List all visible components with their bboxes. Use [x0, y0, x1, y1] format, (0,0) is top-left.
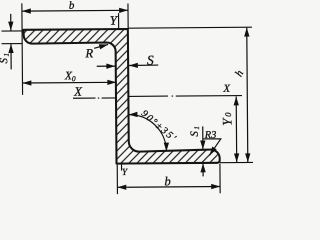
svg-text:S: S	[0, 58, 10, 64]
svg-text:R: R	[84, 46, 93, 60]
label S1 (bottom, rotated)	[189, 126, 201, 137]
svg-text:0: 0	[223, 112, 233, 117]
label R (top inner radius)	[84, 46, 93, 60]
label S1 (left, rotated)	[0, 53, 11, 64]
svg-text:90°±35′: 90°±35′	[139, 108, 179, 145]
dimension line Y0	[235, 96, 238, 162]
svg-text:1: 1	[3, 53, 11, 57]
label b (top)	[69, 0, 75, 12]
leader shelf R3	[203, 139, 221, 156]
label Y0 (rotated)	[219, 112, 234, 126]
dimension line X0	[22, 81, 116, 84]
dimension line b (bottom flange width)	[117, 185, 220, 188]
top extension line (profile top, to h)	[128, 26, 252, 29]
svg-text:1: 1	[193, 126, 201, 130]
svg-text:b: b	[69, 0, 75, 12]
svg-text:Y: Y	[122, 168, 129, 178]
svg-text:X0: X0	[64, 70, 76, 83]
arrow S left (points right at web left face)	[97, 65, 115, 67]
svg-text:Y: Y	[219, 117, 234, 126]
label 90deg +-35'	[139, 108, 179, 145]
label R3	[204, 130, 217, 141]
arrow S1 bottom-lower (points up at bottom edge)	[202, 163, 204, 176]
svg-text:S: S	[189, 131, 201, 137]
Y axis segment top	[118, 13, 120, 29]
extension line right of web top (for b top)	[127, 4, 129, 28]
arrow S right (points left at web right face)	[129, 64, 158, 66]
label X (left)	[73, 85, 83, 99]
svg-text:h: h	[233, 68, 246, 79]
extension line bottom right (for b bottom)	[219, 164, 221, 193]
extension line S1 top (left flange top face)	[1, 30, 22, 32]
label Y (top axis)	[110, 13, 119, 28]
bottom extension line (profile bottom, to h)	[220, 161, 253, 163]
svg-text:Y: Y	[110, 13, 119, 28]
svg-text:b: b	[164, 174, 170, 188]
Y axis segment bottom	[121, 164, 123, 170]
arrow S1 bottom-upper (points down at flange top face)	[202, 126, 204, 149]
svg-text:X: X	[222, 83, 231, 95]
X axis centre line (left part)	[73, 97, 116, 99]
label S	[147, 53, 154, 68]
label h (rotated)	[233, 68, 246, 79]
angle dimension arc 90deg	[129, 114, 167, 151]
Z-section profile (hatched body)	[23, 28, 219, 164]
arrow S1 lower (points up to flange underside)	[10, 44, 12, 69]
leader R with arrow to fillet	[94, 44, 108, 48]
extension line S1 bottom (left flange underside)	[2, 43, 23, 45]
label X0	[64, 70, 76, 83]
X axis centre line (right part)	[129, 95, 242, 98]
dimension line b (top flange width)	[22, 9, 128, 12]
extension line bottom left (for b bottom)	[116, 165, 118, 194]
label Y (bottom axis)	[122, 168, 129, 178]
dimension line h	[247, 28, 248, 163]
svg-text:S: S	[147, 53, 154, 68]
arrow S1 upper (points down to flange top)	[10, 14, 12, 31]
extension line left (for b top and X0)	[21, 3, 24, 94]
label b (bottom)	[164, 174, 170, 188]
svg-text:X: X	[73, 85, 83, 99]
label X (right)	[222, 83, 231, 95]
